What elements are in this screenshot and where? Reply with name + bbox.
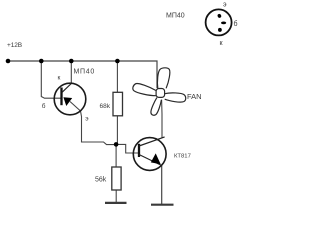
svg-text:к: к [58, 74, 61, 81]
svg-text:б: б [234, 20, 238, 28]
svg-text:56k: 56k [95, 177, 107, 184]
svg-text:МП40: МП40 [166, 13, 185, 20]
svg-text:э: э [223, 2, 227, 9]
svg-text:МП40: МП40 [74, 69, 95, 76]
svg-text:68k: 68k [100, 103, 111, 110]
svg-text:+12В: +12В [7, 42, 22, 49]
svg-text:КТ817: КТ817 [174, 154, 191, 160]
svg-text:б: б [42, 102, 46, 110]
svg-text:FAN: FAN [187, 92, 202, 101]
